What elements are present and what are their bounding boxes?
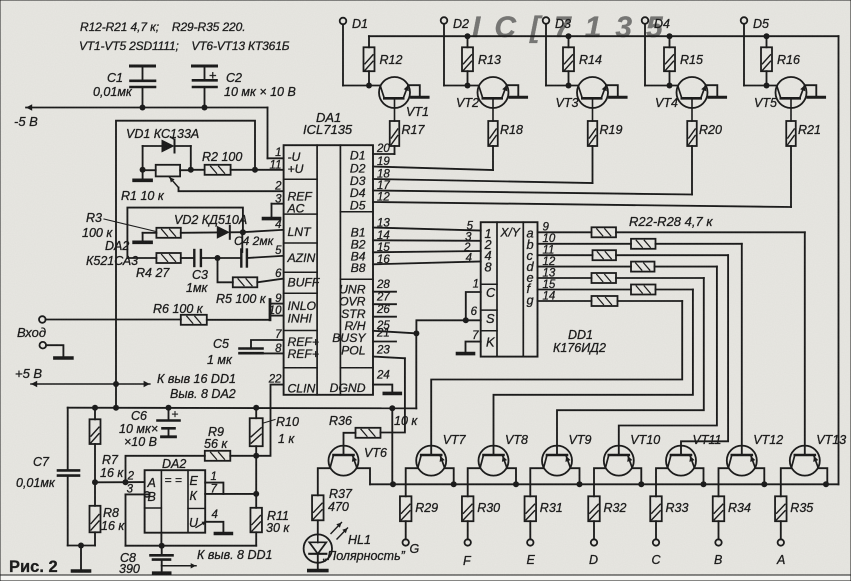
diode VD2 — [217, 226, 246, 239]
transistor VT3 — [556, 77, 627, 121]
resistor R35 — [775, 496, 813, 521]
resistor R3 — [143, 228, 217, 238]
capacitor C7 — [16, 408, 79, 546]
label to DD1 pin8 — [197, 548, 272, 562]
resistor R9 — [126, 425, 257, 482]
wire -5V rail — [26, 104, 268, 158]
wire digit drive D5 — [373, 146, 791, 207]
wire VT12 emitter — [755, 468, 764, 484]
wire VD2 node to C4 — [241, 232, 243, 252]
transistor VT11 — [666, 433, 721, 476]
terminal D5 — [741, 17, 769, 31]
pin labels DA1 left — [287, 150, 321, 395]
wire D4 to base line — [645, 24, 678, 88]
resistor R8 — [90, 482, 126, 545]
ground HL1 — [309, 563, 327, 571]
wire VT6 collector — [318, 468, 330, 495]
resistor R21 — [786, 121, 821, 146]
wire VT7 emitter — [445, 468, 454, 484]
pin numbers DA1 left — [268, 147, 282, 386]
resistor R18 — [488, 121, 523, 146]
resistor R33 — [650, 496, 688, 521]
wire top bus — [369, 33, 839, 484]
terminal segment F — [465, 521, 471, 546]
wire pin21 stub — [373, 341, 396, 343]
wire +5V rail — [68, 333, 417, 411]
label segment B — [714, 553, 722, 567]
resistor R12 — [364, 36, 403, 85]
pin labels DD1 — [484, 226, 535, 350]
wire pin27 stub — [373, 303, 396, 305]
label DD1 — [553, 328, 606, 355]
wire VT10 emitter — [632, 468, 641, 484]
label VD2 — [174, 213, 247, 227]
resistor R13 — [462, 36, 501, 85]
resistor R37 — [312, 487, 353, 534]
capacitor C3 — [186, 250, 241, 295]
resistor R19 — [588, 121, 623, 146]
pin labels DA1 right — [330, 148, 367, 394]
label segment D — [589, 553, 598, 567]
ground R3 — [134, 233, 151, 243]
resistor R17 — [390, 121, 426, 146]
resistor R36 — [329, 414, 418, 455]
ground AC pin — [264, 204, 284, 219]
ground DD1 K pin — [458, 342, 481, 354]
terminal segment A — [778, 521, 784, 546]
transistor VT12 — [727, 433, 783, 476]
transistor VT7 — [416, 433, 466, 476]
wire VT11 emitter — [694, 468, 703, 484]
resistor R15 — [664, 36, 703, 85]
label to DD1 pin16 — [157, 372, 236, 386]
wire VD2 to INT pin4 — [243, 230, 284, 232]
label segment F — [463, 554, 472, 568]
wire segment e to base — [557, 278, 704, 455]
wire CLIN link — [253, 385, 283, 459]
label segment A — [776, 553, 785, 567]
transistor VT4 — [655, 77, 726, 121]
label -5V — [14, 114, 38, 129]
resistor R32 — [588, 496, 626, 521]
diode VD1 — [143, 137, 191, 153]
op-amp U1 DA1 ICL7135 body — [284, 145, 373, 395]
pin labels DA2 — [147, 473, 207, 530]
wire B1 — [373, 228, 481, 231]
resistor R5 — [216, 258, 284, 306]
terminal D4 — [642, 17, 670, 31]
pin numbers DA2 — [127, 471, 218, 522]
resistor R14 — [563, 36, 602, 85]
label VD1 — [126, 127, 199, 141]
transistor VT1 — [379, 77, 429, 121]
terminal D2 — [441, 17, 469, 31]
resistor R2 — [191, 150, 284, 175]
wire DA2 pin7 — [205, 491, 259, 497]
resistor R22 segment a — [538, 227, 805, 237]
resistor R10 — [250, 408, 299, 456]
capacitor C1 — [93, 66, 155, 108]
resistor R29 — [400, 496, 438, 521]
resistor R25 segment d — [538, 262, 717, 272]
label parts values line 2 — [79, 39, 290, 53]
wire VT13 collector — [781, 468, 792, 496]
ground DGND pin24 — [373, 385, 400, 394]
label +5V — [15, 366, 42, 381]
wire pin26 stub — [373, 316, 396, 318]
resistor R16 — [761, 36, 800, 85]
terminal segment C — [653, 521, 659, 546]
wire D5 to base line — [744, 24, 777, 88]
wire VT9 emitter — [570, 468, 579, 484]
resistor R7 — [90, 408, 125, 486]
label segment C — [652, 553, 662, 567]
wire A input — [95, 479, 145, 485]
transistor VT8 — [479, 433, 528, 476]
transistor VT10 — [604, 433, 660, 476]
label DA2 K521SA3 — [86, 239, 138, 268]
label segment G — [410, 542, 420, 556]
terminal D1 — [340, 17, 368, 31]
wire R1 wiper to pin2 — [170, 177, 284, 191]
resistor R31 — [525, 496, 563, 521]
wire segment a to base — [804, 232, 806, 455]
capacitor C6 — [119, 407, 180, 449]
terminal input Vhod — [17, 316, 46, 340]
wire emitter bus — [370, 481, 839, 487]
terminal segment E — [527, 521, 533, 546]
wire digit drive D4 — [373, 146, 692, 195]
transistor VT6 — [329, 446, 387, 476]
transistor VT9 — [542, 433, 591, 476]
wire segment g to base — [431, 301, 682, 455]
potentiometer R1 — [121, 165, 191, 203]
wire VT8 emitter — [507, 468, 516, 484]
label DA1 — [303, 110, 353, 137]
resistor R11 — [250, 456, 290, 546]
label R22-R28 — [629, 214, 713, 229]
ground R1 left — [134, 170, 151, 181]
terminal segment G — [403, 521, 409, 546]
capacitor C5 — [207, 337, 284, 367]
resistor R4 — [127, 253, 194, 280]
wire VT13 emitter — [818, 468, 827, 484]
wire VT11 collector — [656, 468, 668, 496]
wire +5V line — [31, 381, 150, 387]
resistor R6 — [46, 302, 270, 325]
ground C8 — [154, 566, 170, 574]
wire pin28 stub — [373, 291, 396, 293]
pin numbers DD1 — [463, 221, 556, 343]
wire digit drive D2 — [373, 146, 493, 170]
wire digit drive D1 — [373, 146, 395, 154]
wire VT10 collector — [594, 468, 605, 496]
wire D1 to base line — [343, 24, 380, 88]
wire B4 — [373, 251, 481, 252]
wire VT7 collector — [406, 468, 418, 496]
capacitor C8 — [119, 546, 173, 576]
wire segment b to base — [741, 244, 743, 455]
ground C7 R8 — [68, 543, 95, 572]
label HL1 — [322, 533, 406, 563]
wire B input — [126, 492, 150, 546]
wire VT8 collector — [468, 468, 480, 496]
ground DA2 pin4 — [205, 522, 231, 534]
wire C8 to DD1 pin8 — [162, 563, 196, 568]
wire DA2 pin1 — [205, 483, 223, 494]
label to DA2 pin8 — [170, 387, 236, 401]
wire VT9 collector — [530, 468, 543, 496]
wire VT12 collector — [719, 468, 729, 496]
wire VD1 loop — [140, 146, 194, 173]
wire R/H to DD1 S and C — [416, 292, 480, 333]
transistor VT13 — [790, 433, 846, 476]
capacitor C2 — [193, 66, 296, 108]
resistor R24 segment c — [538, 250, 729, 260]
resistor R27 segment f — [538, 285, 693, 295]
wire pin1 -U — [268, 157, 284, 159]
terminal input common — [40, 342, 72, 358]
comparator DA2 body — [145, 470, 206, 533]
wire B2 — [373, 239, 481, 242]
wire pin23 POL — [373, 357, 405, 359]
wire segment f to base — [494, 290, 693, 456]
wire D3 to base line — [546, 24, 578, 88]
resistor R30 — [462, 496, 500, 521]
resistor R34 — [713, 496, 751, 521]
resistor R28 segment g — [538, 296, 683, 306]
wire +U feed loop — [116, 121, 258, 408]
transistor VT5 — [754, 77, 825, 121]
resistor R20 — [687, 121, 722, 146]
capacitor C4 — [234, 234, 275, 267]
pin numbers DA1 right — [376, 143, 390, 381]
transistor VT2 — [456, 77, 527, 121]
terminal D3 — [543, 17, 571, 31]
terminal segment B — [715, 521, 721, 546]
resistor R26 segment e — [538, 273, 704, 283]
node INLO-INHI tie — [270, 300, 284, 320]
label DA2 — [162, 457, 186, 471]
wire B8 — [373, 262, 481, 265]
wire C8 node — [126, 533, 257, 549]
wire C4 to AZIN pin5 — [247, 256, 284, 258]
wire INT loop — [127, 208, 242, 258]
wire segment c to base — [681, 255, 728, 455]
IC DD1 K176ID2 body — [481, 222, 538, 356]
label segment E — [527, 553, 536, 567]
terminal segment D — [591, 521, 597, 546]
wire D2 to base line — [444, 24, 479, 88]
label R3 — [82, 211, 156, 240]
wire pin25 R/H — [373, 330, 419, 336]
wire POL to R36 — [381, 358, 405, 432]
wire rail to emitter bus — [391, 408, 393, 484]
wire segment d to base — [619, 267, 717, 455]
label parts values line 1 — [80, 20, 245, 34]
led HL1 — [304, 523, 348, 563]
wire VT6 emitter — [357, 468, 370, 484]
resistor R23 segment b — [538, 239, 742, 249]
wire digit drive D3 — [373, 146, 593, 183]
label Ris 2 — [9, 558, 58, 576]
